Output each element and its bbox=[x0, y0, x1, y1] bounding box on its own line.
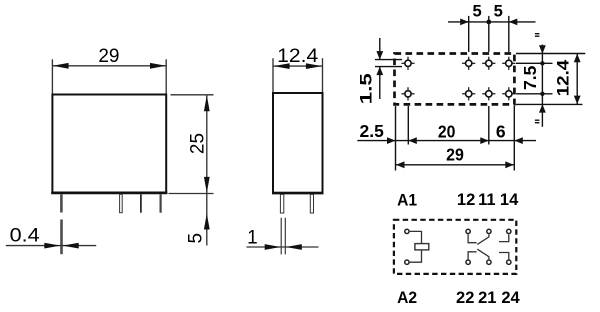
svg-text:5: 5 bbox=[494, 2, 503, 20]
contact terminal 22 bbox=[466, 260, 470, 264]
dimension 1.5 (hole diameter) bbox=[375, 38, 402, 99]
svg-text:24: 24 bbox=[501, 289, 520, 307]
dimension 5 (pin length, front) bbox=[204, 214, 210, 230]
svg-text:11: 11 bbox=[478, 191, 495, 209]
pcb outline dashed bbox=[395, 54, 515, 105]
schematic outline dashed bbox=[394, 220, 516, 274]
hole 22 bbox=[462, 87, 475, 100]
coil wires bbox=[410, 231, 422, 262]
movable blade 11 bbox=[477, 234, 489, 244]
dimension 7.5 (row pitch) with equality marks bbox=[516, 45, 553, 127]
svg-text:2.5: 2.5 bbox=[360, 121, 385, 141]
NC seat 12 bbox=[468, 234, 477, 243]
NO seat 24 bbox=[499, 253, 509, 260]
equality mark top bbox=[535, 34, 540, 37]
svg-text:14: 14 bbox=[500, 191, 519, 209]
equality mark bottom bbox=[535, 120, 540, 123]
NC seat 22 bbox=[468, 252, 477, 260]
contact terminal 21 bbox=[487, 260, 491, 264]
dimension 5 5 (top pin pitch) bbox=[448, 16, 536, 52]
dimension 1 (side pin thickness) bbox=[281, 218, 285, 255]
dimension 0.4 (pin thickness, front) bbox=[60, 220, 63, 255]
pin 1 (coil pin, front view) bbox=[60, 194, 63, 212]
hole 11 bbox=[482, 57, 495, 70]
svg-text:5: 5 bbox=[186, 233, 207, 244]
svg-text:25: 25 bbox=[188, 133, 209, 154]
svg-text:1: 1 bbox=[247, 227, 258, 248]
hole A1 bbox=[401, 57, 414, 70]
pin 3 (front view) bbox=[140, 194, 142, 212]
svg-text:21: 21 bbox=[478, 289, 496, 307]
contact terminal 14 bbox=[507, 229, 511, 233]
contact terminal 12 bbox=[466, 229, 470, 233]
dimension 12.4 (side width) bbox=[273, 58, 323, 92]
dimension 12.4 (pcb height) bbox=[516, 54, 585, 105]
svg-text:A2: A2 bbox=[397, 288, 417, 307]
hole 21 bbox=[482, 87, 495, 100]
hole A2 bbox=[401, 87, 414, 100]
hole 14 bbox=[502, 57, 515, 70]
svg-text:12: 12 bbox=[457, 191, 475, 209]
dimension 29 (front width) bbox=[52, 59, 166, 93]
movable blade 21 bbox=[477, 249, 489, 259]
svg-text:20: 20 bbox=[438, 122, 456, 142]
hole 12 bbox=[462, 57, 475, 70]
svg-text:7.5: 7.5 bbox=[520, 65, 540, 90]
pin 2 (hollow, front view) bbox=[120, 194, 123, 212]
svg-text:29: 29 bbox=[98, 46, 119, 67]
hole 24 bbox=[502, 87, 515, 100]
bottom chained dimensions 2.5 / 20 / 6 bbox=[357, 106, 536, 171]
pin 4 (front view) bbox=[160, 194, 162, 212]
coil box bbox=[415, 244, 429, 250]
NO seat 14 bbox=[499, 234, 509, 241]
coil terminal A2 bbox=[405, 260, 409, 264]
holes bbox=[401, 57, 515, 101]
contact terminal 11 bbox=[487, 229, 491, 233]
svg-text:5: 5 bbox=[473, 2, 482, 20]
svg-text:12.4: 12.4 bbox=[277, 46, 318, 67]
contact terminal 24 bbox=[507, 260, 511, 264]
svg-text:22: 22 bbox=[456, 289, 474, 307]
svg-text:12.4: 12.4 bbox=[555, 59, 573, 96]
dimension 25 (front height) bbox=[169, 95, 214, 246]
side view pin right (hollow) bbox=[310, 194, 313, 213]
relay body front view bbox=[51, 95, 167, 193]
svg-text:1.5: 1.5 bbox=[358, 73, 376, 104]
relay body side view bbox=[272, 93, 324, 193]
svg-text:6: 6 bbox=[496, 121, 506, 141]
svg-text:0.4: 0.4 bbox=[10, 226, 40, 247]
svg-text:A1: A1 bbox=[397, 190, 417, 209]
svg-text:29: 29 bbox=[446, 144, 464, 164]
coil terminal A1 bbox=[405, 229, 409, 233]
dimension 29 (pcb width) bbox=[396, 164, 515, 166]
side view pin left (hollow) bbox=[280, 194, 283, 213]
